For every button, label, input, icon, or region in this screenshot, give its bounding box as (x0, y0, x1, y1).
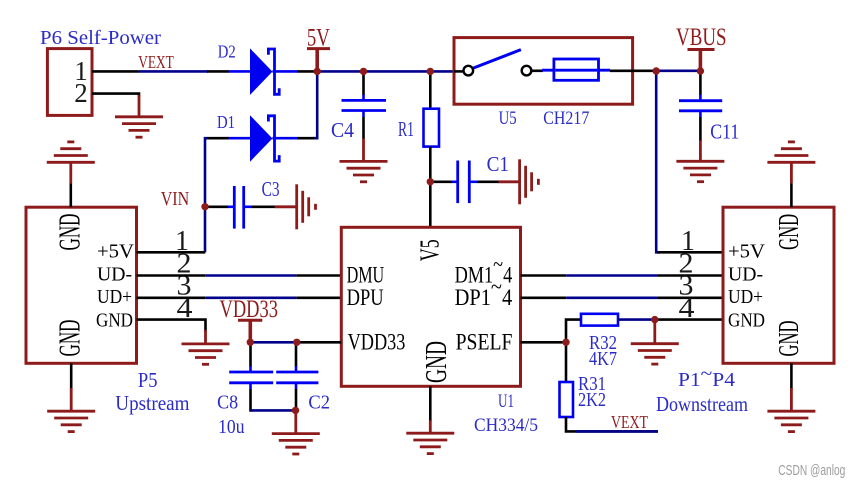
svg-text:GND: GND (774, 321, 805, 357)
U1 right pin names (455, 252, 513, 355)
svg-text:R1: R1 (398, 117, 414, 141)
wire PSELF to R31 (565, 342, 568, 382)
svg-text:P1~P4: P1~P4 (678, 363, 735, 391)
connector P6 (47, 49, 92, 116)
wire P5 pin 1 (137, 251, 206, 254)
svg-text:C3: C3 (262, 177, 280, 201)
connector P5 (26, 207, 137, 363)
power port 5V (307, 25, 330, 72)
svg-text:U1: U1 (498, 391, 514, 412)
svg-text:10u: 10u (218, 416, 244, 438)
svg-text:GND: GND (728, 310, 765, 332)
power port VDD33 (220, 296, 279, 342)
ground at P6 pin 2 (115, 95, 163, 137)
wire D1 cathode to 5V rail (313, 71, 317, 138)
svg-text:UD+: UD+ (97, 286, 132, 308)
svg-text:U5: U5 (499, 108, 517, 129)
IC U1 box (341, 227, 520, 386)
svg-text:D1: D1 (217, 112, 235, 132)
U1 left pin names (347, 263, 406, 355)
wire U1 VDD33 pin (297, 341, 342, 344)
wire DP1~4 to downstream UD+ (521, 296, 724, 299)
svg-text:C2: C2 (308, 392, 330, 414)
svg-text:VEXT: VEXT (611, 412, 648, 432)
junction C1 (427, 178, 434, 185)
svg-text:P6 Self-Power: P6 Self-Power (40, 27, 161, 49)
capacitor C11 (679, 71, 722, 141)
svg-text:2K2: 2K2 (578, 389, 606, 411)
svg-text:PSELF: PSELF (456, 329, 513, 354)
wire U1 GND pin (429, 386, 432, 421)
P1~P4 pin numbers (679, 226, 696, 324)
ground at C1 (499, 159, 539, 204)
ground at downstream GND pin (631, 320, 679, 365)
wire U5 output to VBUS (653, 70, 701, 73)
ground at C2 (272, 410, 320, 454)
wire 5V rail (314, 70, 455, 73)
junction VBUS (697, 67, 704, 74)
wire VEXT net (576, 430, 658, 433)
wire P5 top to ground (70, 183, 73, 207)
wire P6 pin 1 (92, 70, 139, 73)
switch contacts U5 (454, 50, 543, 76)
fuse in U5 (542, 59, 653, 80)
svg-text:C4: C4 (331, 118, 354, 142)
wire downstream pin 4 (657, 318, 723, 321)
svg-text:GND: GND (52, 320, 87, 357)
wire P1~P4 bottom to ground (790, 363, 793, 389)
wire C8 to C2 bottom (251, 409, 297, 412)
ground below P1~P4 (767, 388, 815, 432)
connector P1~P4 (723, 207, 834, 363)
wire P1~P4 top to ground (790, 183, 793, 207)
wire P5 pin 4 to ground (137, 320, 206, 332)
svg-text:GND: GND (52, 214, 87, 251)
ground at C11 (676, 140, 724, 181)
svg-text:UD-: UD- (728, 264, 763, 286)
resistor R32 (581, 314, 618, 326)
svg-text:C1: C1 (487, 152, 509, 176)
wire V5 pin of U1 (429, 182, 432, 228)
svg-text:V5: V5 (414, 239, 444, 261)
P5 pin names (96, 240, 135, 331)
inverted ground above P5 (47, 142, 95, 184)
junction PSELF (562, 339, 569, 346)
wire VEXT (139, 70, 209, 73)
power port VBUS (676, 24, 727, 71)
wire P6 pin 2 (92, 94, 139, 97)
svg-text:CH334/5: CH334/5 (474, 415, 538, 436)
ground at P5 pin 4 (182, 330, 230, 364)
junction C2 bottom (292, 407, 299, 414)
svg-text:4K7: 4K7 (589, 348, 617, 370)
svg-text:VBUS: VBUS (676, 24, 727, 51)
svg-text:VIN: VIN (161, 188, 190, 210)
junction downstream GND (651, 316, 658, 323)
resistor R31 (560, 382, 574, 417)
power switch U5 box (454, 38, 633, 105)
svg-text:Downstream: Downstream (656, 392, 748, 416)
capacitor C1 (430, 161, 499, 204)
svg-text:GND: GND (774, 214, 805, 250)
junction VDD33 right (293, 339, 300, 346)
P1~P4 pin names (728, 240, 766, 331)
svg-text:DM1~4: DM1~4 (455, 252, 513, 288)
inverted ground above P1~P4 (767, 142, 815, 184)
ground at U1 GND (406, 420, 454, 453)
wire D1 anode to P5 +5V (205, 138, 207, 252)
wire PSELF pin (521, 341, 567, 344)
capacitor C2 (276, 342, 318, 410)
svg-text:GND: GND (96, 310, 133, 332)
svg-text:+5V: +5V (97, 240, 135, 262)
svg-text:VEXT: VEXT (138, 52, 174, 72)
diode D2 (207, 48, 314, 95)
svg-text:C8: C8 (217, 392, 238, 414)
svg-text:DMU: DMU (347, 263, 385, 288)
wire P5 bottom to ground (70, 363, 73, 389)
svg-text:D2: D2 (218, 42, 236, 62)
wire R31 to VEXT (566, 417, 658, 431)
capacitor C3 (205, 186, 275, 229)
P5 pin numbers (175, 226, 193, 324)
junction R1 top (427, 68, 434, 75)
wire PSELF to R32 (566, 320, 581, 343)
svg-text:UD-: UD- (97, 264, 132, 286)
ground below P5 (47, 388, 95, 432)
svg-text:Upstream: Upstream (115, 391, 189, 415)
svg-text:2: 2 (74, 78, 88, 108)
wire DM1~4 to downstream UD- (521, 274, 724, 277)
ground at C4 (340, 139, 388, 182)
wire R32 to GND junction (618, 318, 652, 321)
wire downstream pin 1 (657, 251, 723, 254)
svg-text:DPU: DPU (347, 285, 384, 310)
resistor R1 (424, 71, 440, 181)
svg-text:+5V: +5V (728, 240, 766, 262)
svg-text:CH217: CH217 (543, 108, 589, 129)
junction VIN (201, 203, 208, 210)
junction C4 (360, 68, 367, 75)
svg-text:CSDN @anlog: CSDN @anlog (778, 462, 845, 479)
P6 pin numbers (74, 56, 88, 108)
svg-text:4: 4 (679, 293, 695, 324)
svg-text:VDD33: VDD33 (348, 329, 406, 354)
svg-text:P5: P5 (138, 368, 158, 392)
diode D1 (207, 115, 315, 162)
junction 5V (314, 68, 321, 75)
svg-text:UD+: UD+ (728, 286, 763, 308)
capacitor C4 (342, 71, 387, 139)
wire P5 pin 2 (UD-) (137, 274, 342, 277)
capacitor C8 (229, 342, 273, 411)
ground at C3 (275, 184, 316, 229)
junction VDD33 left (247, 339, 254, 346)
wire VDD33 net (250, 341, 296, 344)
svg-text:GND: GND (418, 341, 453, 383)
wire VBUS rail to downstream pin 1 (656, 71, 660, 252)
wire P5 pin 3 (UD+) (137, 296, 342, 299)
junction U5 output (653, 67, 660, 74)
svg-text:C11: C11 (710, 120, 739, 144)
